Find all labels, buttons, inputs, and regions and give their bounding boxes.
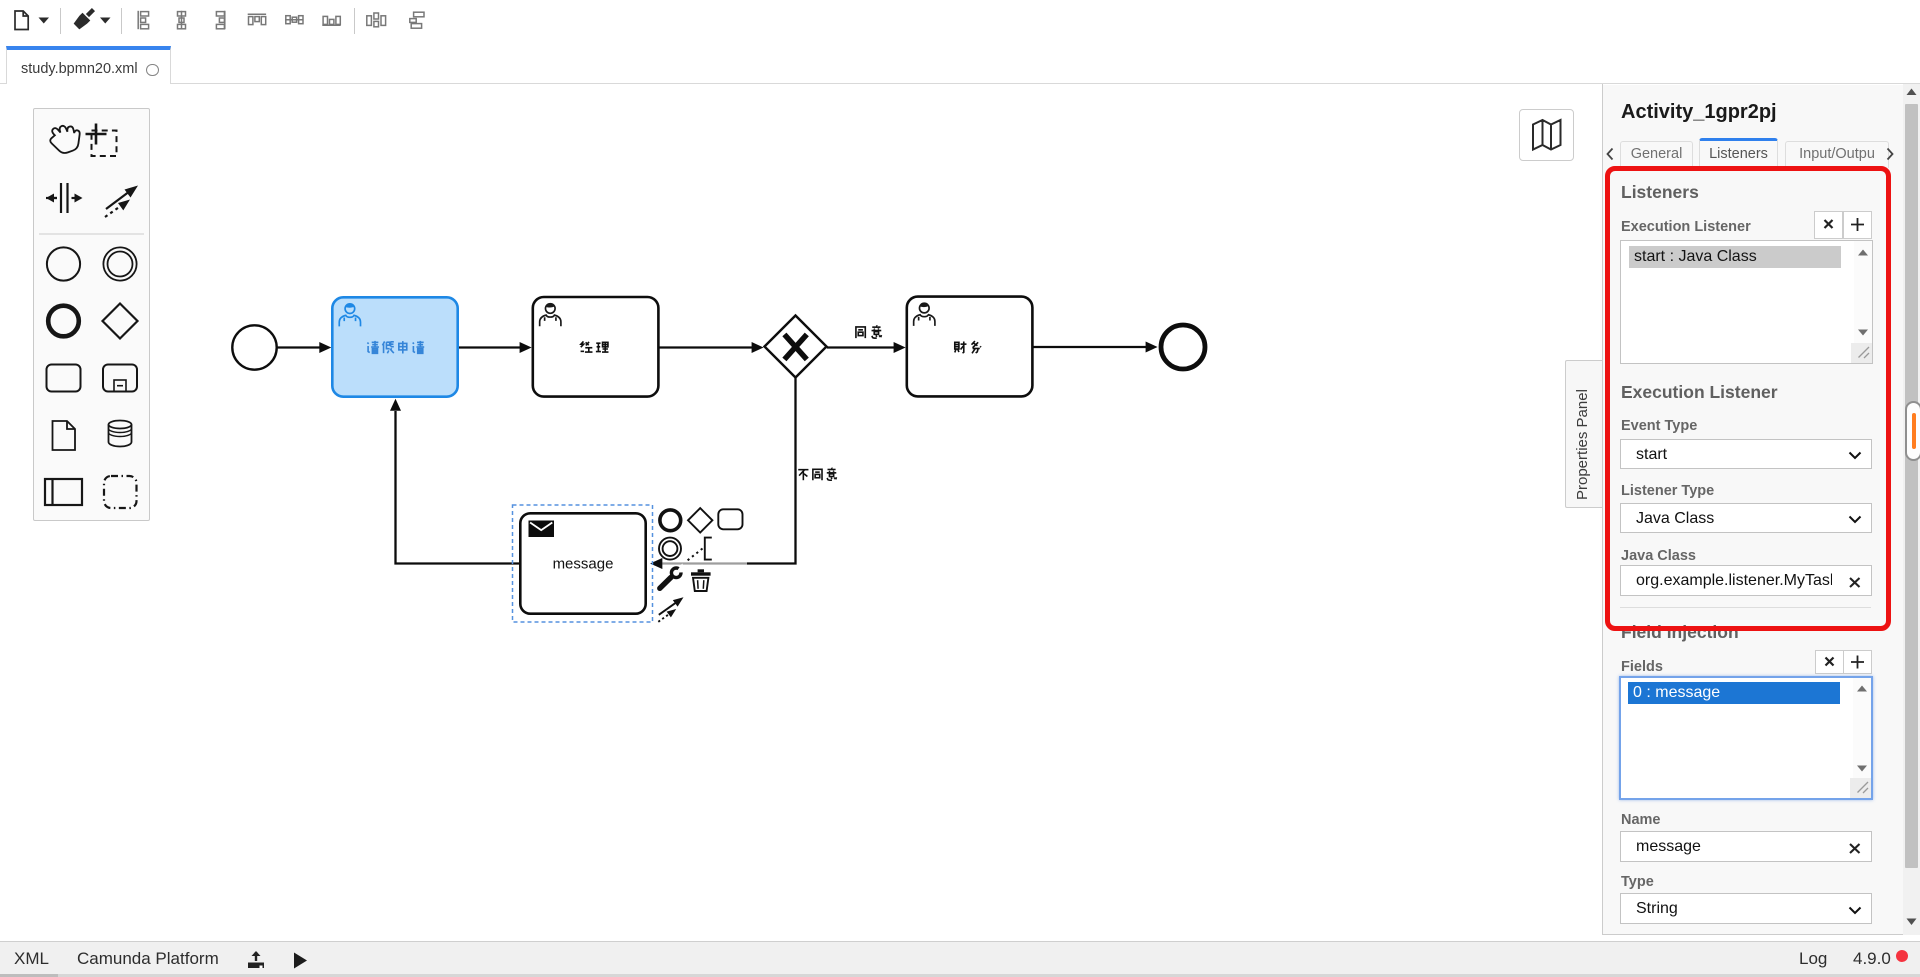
svg-text:message: message xyxy=(553,556,614,573)
